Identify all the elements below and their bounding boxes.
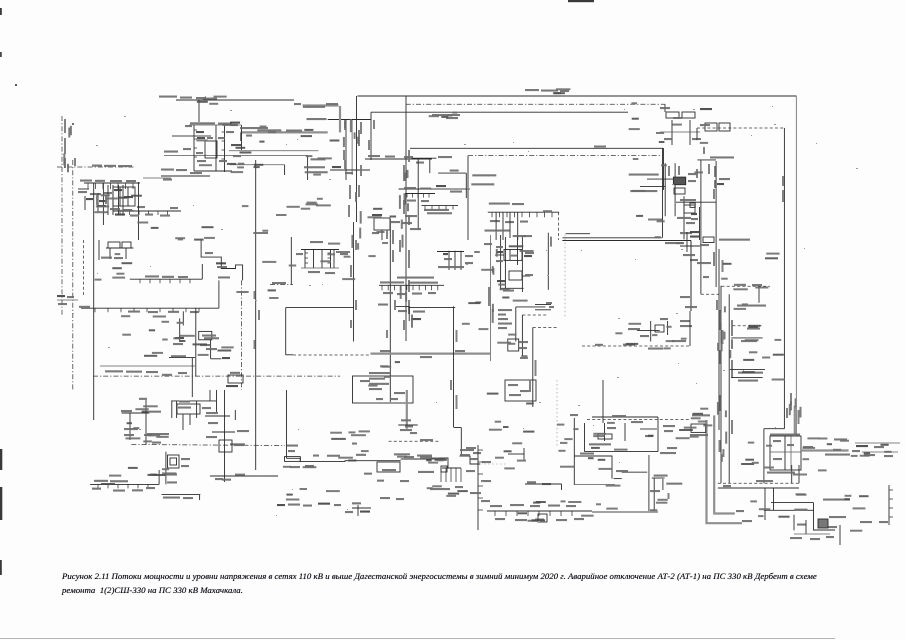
wire y510 <box>764 509 814 511</box>
wire stub x697 <box>696 128 698 140</box>
wire vertical x99 <box>98 240 100 260</box>
wire long vertical x719 <box>718 249 720 430</box>
wire loop top y148 <box>410 147 664 149</box>
rotated label <box>703 147 705 154</box>
wire drop 4 <box>517 212 519 240</box>
wire box left x285 <box>285 308 287 355</box>
wire drop x759 <box>758 286 760 303</box>
wire vertical x179 <box>179 318 181 342</box>
wire vertical x505 <box>504 237 506 288</box>
ticks x889 <box>889 490 893 517</box>
wire ring bottom y451 <box>585 451 659 453</box>
wire tie y306 <box>516 306 546 308</box>
label <box>450 170 459 172</box>
wire drop <box>689 120 691 145</box>
label <box>272 282 286 284</box>
wire vertical x700 <box>700 160 702 294</box>
wire ring top y417 <box>592 416 658 418</box>
wire step <box>440 458 449 468</box>
label Gergebil <box>148 411 161 413</box>
wire vertical x218 <box>218 280 220 308</box>
wire vertical x123 <box>122 185 124 215</box>
label Dagestanskaya 1Gk <box>654 475 668 477</box>
wire central vertical x406 <box>405 96 407 341</box>
wire long bus y308 <box>81 307 219 309</box>
wire bus y183 <box>84 182 140 184</box>
label PS 330 Derbent 1Gk <box>770 434 800 436</box>
label right of block <box>240 127 268 129</box>
Rubas box <box>655 325 664 332</box>
wire vertical x210 <box>210 340 212 359</box>
rotated label x782 <box>782 176 784 186</box>
wire gray long tie y353 <box>371 353 491 355</box>
wire vertical x418 <box>417 158 419 229</box>
wire dotted x565 <box>564 235 566 318</box>
label nb lk <box>307 118 327 120</box>
label left of ring <box>570 414 578 416</box>
wire bus y488 <box>718 487 799 489</box>
wire box divider <box>509 250 511 261</box>
wire long vertical x729 <box>728 294 730 483</box>
wire tie y159 <box>365 158 432 160</box>
Levashi box <box>219 440 232 452</box>
wire extra vertical x85 <box>84 196 86 210</box>
label lower <box>767 472 795 474</box>
wire long vertical x224 <box>224 390 226 482</box>
wire drop from loop top <box>663 148 665 190</box>
wire right outer vertical feeder <box>795 96 797 436</box>
pins block v1 <box>194 130 197 157</box>
ticks y211 <box>120 211 168 215</box>
wire box top y307 <box>286 307 354 309</box>
box 2 <box>509 271 522 280</box>
inner box 1 <box>598 434 612 439</box>
wire inner vertical <box>604 423 606 441</box>
text block Zazemlenie <box>369 372 391 374</box>
wire vertical x108 <box>107 185 109 215</box>
wire long vertical x721 <box>720 286 722 483</box>
wire block top y251 <box>437 251 464 253</box>
label PS 330 Derbent <box>756 480 773 482</box>
pins block v3 <box>222 132 225 159</box>
wire tie y189 <box>399 188 432 190</box>
wire tie y416 <box>205 415 230 417</box>
label 1-U2Gk <box>152 442 161 444</box>
wire dashed x558 <box>557 212 559 240</box>
wire bays top tie <box>301 249 339 251</box>
wire bay <box>454 251 456 270</box>
wire long vertical x453 <box>453 306 455 427</box>
station box x228 <box>228 375 243 383</box>
label on top bus <box>525 89 539 91</box>
wire dash-dot loop top y156 <box>468 155 662 157</box>
wire tie y279 <box>130 278 203 280</box>
Derbent block <box>770 436 801 470</box>
rotated label <box>535 360 537 376</box>
wire vertical x210 <box>209 390 211 401</box>
rotated label <box>373 120 375 129</box>
wire stub drop <box>561 484 563 490</box>
Tranzit box <box>504 250 522 261</box>
wire drop x199 <box>198 100 200 122</box>
label mir <box>294 103 301 105</box>
label Rubas Mirny 1Pd <box>719 239 750 241</box>
label nb Shamkhal <box>311 158 326 160</box>
station box left <box>113 187 135 206</box>
wire bay <box>196 401 198 418</box>
label below comb <box>430 488 450 490</box>
comb teeth <box>441 468 461 482</box>
wire y178 <box>143 177 171 179</box>
southwest bottom label row <box>277 504 285 506</box>
label LEPm-VL <box>692 414 710 416</box>
label Pb-VB <box>79 306 90 308</box>
label +305-Am <box>139 398 147 400</box>
label Gergebil <box>202 335 216 337</box>
wire block vertical 2 <box>215 125 217 171</box>
node dot <box>72 123 74 125</box>
wire top tie y160 <box>697 159 716 161</box>
rotated label LEP <box>719 310 721 330</box>
wire vertical x699 <box>699 207 701 240</box>
wire vertical x113 <box>112 185 114 215</box>
label on gray tie <box>380 350 390 352</box>
wire gray tie y105 <box>303 104 339 106</box>
wire bays bottom <box>301 267 339 269</box>
wire dashed y286 <box>722 285 771 287</box>
wire vertical x353 lower <box>353 222 355 342</box>
wire box divider 2 <box>119 187 121 206</box>
label Zhdlk <box>589 443 611 445</box>
wire y100 line <box>176 99 294 101</box>
wire vertical x307 <box>307 155 309 180</box>
pins <box>328 253 331 263</box>
wire bus segment 2 <box>401 458 442 460</box>
wire bay 4 <box>330 250 332 269</box>
label Rubas 1Gk <box>628 328 640 330</box>
Botlikh inner box <box>170 458 177 465</box>
label Vzhidk <box>797 524 806 526</box>
wire thin y164 <box>230 164 285 166</box>
rotated label <box>668 493 670 499</box>
box Verkh <box>508 339 519 351</box>
wire long dash-dot y376 <box>93 375 340 377</box>
label Makhachkala 330 <box>580 453 594 455</box>
wire y484 stub <box>525 483 562 485</box>
rotated label <box>668 166 670 176</box>
ticks bus y308 <box>95 308 199 312</box>
wire bay <box>182 414 184 430</box>
wire loop right edge <box>662 148 664 238</box>
label row 1 <box>397 277 434 279</box>
wire right edge tie <box>855 442 900 444</box>
wire tie <box>398 424 417 426</box>
box left of feeders <box>691 424 706 432</box>
wire vertical x103 <box>102 183 104 225</box>
RP ticks <box>407 194 429 198</box>
wire stub <box>805 520 807 534</box>
rotated label +ChGES <box>550 237 552 247</box>
wire vertical x371 <box>370 112 372 160</box>
station box right <box>505 380 536 401</box>
wire step down <box>814 503 836 530</box>
label Artyom <box>418 471 434 473</box>
label +AGLGU <box>420 439 433 441</box>
label +305-u4 <box>161 169 174 171</box>
label Gimry 2Gk <box>167 481 177 483</box>
wire drop <box>671 120 673 145</box>
wire vertical x286 (from x288 trunk) <box>286 390 288 458</box>
wire vertical x346 <box>345 120 347 181</box>
label PS Belidzhi 330 <box>737 305 766 307</box>
wire bay <box>460 251 462 270</box>
label Kizilyurt 42 <box>394 453 410 455</box>
wire stub y234 <box>566 233 590 235</box>
wire stepped feeder thin <box>574 456 612 479</box>
wire dashed y326 <box>732 325 762 327</box>
wire y476 <box>210 475 278 477</box>
wire vertical x889 <box>888 485 890 525</box>
wire stub x524 <box>523 448 525 460</box>
wire vertical x667 <box>667 321 669 335</box>
label Novochirkeyskaya 2Gk <box>472 174 496 176</box>
wire inner vertical 2 <box>624 423 626 441</box>
wire vertical x665 <box>664 163 666 216</box>
label Chiryurt 1Pd <box>498 309 512 311</box>
wire stub <box>793 515 795 531</box>
label Belidzhi Tab <box>690 434 708 436</box>
wire bay <box>171 401 173 418</box>
wire stub left <box>495 254 504 256</box>
wire thin bus y150 <box>229 150 318 152</box>
wire dashed bus y483 <box>718 482 799 484</box>
wire bay 5 <box>333 250 335 269</box>
wire loop left edge <box>467 156 469 240</box>
wire vertical x138 <box>138 182 140 240</box>
wire y377 <box>731 376 762 378</box>
wire box bottom y366 <box>100 365 195 367</box>
wire bus y112 <box>371 111 628 113</box>
rotated label <box>722 260 724 272</box>
small box <box>690 203 695 207</box>
wire stub y300 <box>57 299 78 301</box>
label RP-UZA <box>404 187 416 189</box>
label Musk <box>171 355 186 357</box>
wire dash-dot left vertical x62 <box>61 116 63 315</box>
label Belidzhi Vytyazh <box>823 499 850 501</box>
photocopy speckle <box>73 96 858 522</box>
wire tie y176 <box>161 175 210 177</box>
wire dotted x557 <box>556 380 558 447</box>
rotated label <box>64 119 66 133</box>
wire drop 2 <box>502 212 504 240</box>
label above ring <box>612 415 626 417</box>
wire vertical x192 <box>191 358 193 397</box>
ticks y279 <box>140 279 190 283</box>
wire stub up <box>201 264 203 279</box>
box on bottom bus <box>538 514 547 522</box>
wire bay 3 <box>321 250 323 269</box>
wire y357 <box>169 357 195 359</box>
wire block vertical 1 <box>193 125 195 171</box>
label Novochir 7Pb <box>424 209 449 211</box>
wire staircase <box>201 240 243 280</box>
small box <box>108 242 120 248</box>
wire vertical x390 <box>389 219 391 402</box>
label Shamkhal 1Gk <box>438 156 452 158</box>
wire gray y189 <box>432 188 470 190</box>
wire dashed y355 <box>293 354 371 356</box>
label Kirpich <box>630 190 657 192</box>
label row 2 <box>380 281 404 283</box>
small box top <box>703 237 714 243</box>
wire bay 1 <box>304 250 306 269</box>
wire vertical x515 <box>515 307 517 342</box>
wire vertical x466 <box>465 173 467 198</box>
wire tie y205 <box>422 205 459 207</box>
wire drop into box <box>664 104 666 112</box>
rotated label column x790 <box>790 393 792 405</box>
wire tie y358 <box>211 358 222 360</box>
wire thick vertical x648 <box>648 455 650 478</box>
label Ordzhonikidzevskaya <box>485 230 510 232</box>
wire vertical x675 <box>674 163 676 216</box>
wire stub up x799 <box>798 465 800 483</box>
wire faint bus link <box>480 463 508 465</box>
label +9.5-1Gk <box>623 344 635 346</box>
wire vertical x291 <box>290 237 292 285</box>
label +UG-UZ <box>287 445 298 447</box>
station box x198 <box>199 331 212 339</box>
wire vertical x118 <box>118 185 120 215</box>
wire ring left x584 <box>584 423 586 452</box>
wire right edge tie 2 <box>862 451 898 453</box>
wire block inner vertical 2 <box>790 436 792 470</box>
wire vertical x352 <box>351 120 353 176</box>
tick marks x74 <box>74 158 76 166</box>
label y145 <box>231 144 241 146</box>
wire y484 tie east <box>574 484 615 486</box>
label Gunib <box>121 410 132 412</box>
wire vertical x146 <box>145 400 147 445</box>
wire vertical x574 <box>573 418 575 485</box>
figure caption <box>62 569 817 597</box>
generator box <box>673 177 685 185</box>
rotated label <box>798 410 800 424</box>
wire stub x409 <box>408 308 410 321</box>
wire stub <box>199 495 201 501</box>
wire vertical x548 <box>547 233 549 290</box>
wire block inner vertical <box>784 436 786 470</box>
wire stub x235 <box>234 410 236 420</box>
ticks bus y183 <box>88 183 133 189</box>
wire dashed y327 <box>533 327 558 329</box>
wire long vertical x255 <box>255 160 257 470</box>
wire stub <box>284 165 286 175</box>
wire tick y304 <box>535 304 551 306</box>
label Zhdan 330 <box>747 328 760 330</box>
scan artifact top edge <box>568 0 594 2</box>
wire stub up x791 <box>791 465 793 483</box>
wire vertical x603 <box>602 380 604 423</box>
station box x374 <box>374 218 390 230</box>
wire y338 <box>731 337 762 339</box>
wire loop bottom y238 <box>562 237 661 239</box>
Irganay box <box>177 404 200 414</box>
label nb Mkch <box>257 129 281 131</box>
wire gray Makhachkala bus y132 <box>241 131 328 133</box>
wire block top tie <box>189 124 242 126</box>
wire vertical x691 upper <box>690 241 692 312</box>
wire gray L feeder <box>707 420 743 523</box>
label Piramida <box>629 174 659 176</box>
wire ring right x658 <box>657 417 659 452</box>
wire med vertical x490 <box>489 235 491 361</box>
wire vertical x684 <box>683 196 685 239</box>
Zazemlenie text rows left <box>460 449 474 451</box>
wire gray y173 <box>438 172 466 174</box>
wire drop 1 <box>495 212 497 240</box>
wire y454 segment <box>508 453 524 455</box>
wire bay <box>448 251 450 270</box>
wire 330kV top bus <box>358 95 797 97</box>
rotated label Chirkey <box>488 287 490 306</box>
wire vertical x716 <box>715 161 717 287</box>
wire tie y478 <box>652 477 665 479</box>
wire dash-dot bus y104 <box>406 103 665 105</box>
wire vertical x517 <box>517 235 519 265</box>
terminal box <box>818 519 828 528</box>
wire stub y145 <box>231 144 241 146</box>
wire gray L feeder 2 <box>714 415 735 513</box>
wire y494 <box>162 494 201 496</box>
wire comb bus y285 <box>379 284 444 286</box>
wire dash y284 <box>270 284 293 286</box>
label mesto <box>543 210 552 212</box>
wire vertical x216 <box>216 390 218 412</box>
wire drop 3 <box>509 212 511 238</box>
label +9A-2Gk <box>594 146 606 148</box>
wire thin x654 down <box>653 478 655 511</box>
wire south bus west <box>287 458 375 461</box>
label Belidzhi 1kh <box>734 284 746 286</box>
pins <box>305 253 308 263</box>
label above <box>94 480 108 482</box>
ticks y511 <box>495 511 572 516</box>
label Chirkeyskaya 1Pb <box>489 203 510 205</box>
wire drop x765 <box>764 488 766 520</box>
wire stub <box>125 248 127 259</box>
station box A <box>666 112 679 118</box>
wire drop x461 <box>460 428 462 456</box>
rotated label <box>456 330 458 342</box>
wire vertical x691 <box>690 241 692 312</box>
rotated label <box>344 120 346 130</box>
scan artifact top left edge <box>0 8 2 15</box>
wire bottom bus y511 <box>487 510 592 512</box>
wire dashed top link y128 <box>697 127 786 129</box>
wire vertical x690 segment <box>689 311 691 346</box>
wire dashed y315 <box>522 314 547 316</box>
wire thin x648 down <box>648 478 650 511</box>
Botlikh outer box <box>168 455 180 468</box>
wire tie y246 <box>680 245 700 247</box>
wire loop bottom y240 <box>562 240 691 242</box>
label Kizilyurt 330 <box>382 469 396 471</box>
ticks y212 <box>492 212 552 217</box>
wire vertical x183 <box>182 311 184 325</box>
wire stub bottom <box>357 505 359 516</box>
